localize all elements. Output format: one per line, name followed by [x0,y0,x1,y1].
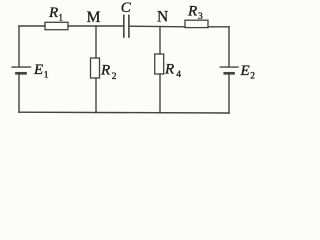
resistor R4 [155,54,164,74]
svg-text:4: 4 [176,70,181,80]
wire left side lower [18,73,20,112]
capacitor C left plate [123,15,125,37]
svg-text:C: C [121,0,132,16]
wire top-left segment [19,25,45,27]
resistor R3 [185,20,208,27]
resistor R1 [45,22,68,29]
svg-text:E: E [240,63,250,79]
wire bottom [19,111,229,114]
svg-text:M: M [87,9,101,26]
wire capacitor to R3 (through node N) [130,25,185,28]
battery E1 long plate [12,66,31,68]
svg-text:R: R [164,62,174,78]
wire right side upper [228,27,230,67]
svg-text:R: R [100,63,110,79]
svg-text:R: R [48,5,58,21]
wire R1 to capacitor (through node M) [68,25,123,27]
svg-text:1: 1 [44,70,49,80]
svg-text:3: 3 [198,12,203,22]
svg-text:2: 2 [112,72,117,82]
svg-text:N: N [157,8,168,25]
node N junction wire down to R4 [159,27,161,54]
svg-text:1: 1 [58,13,63,23]
wire N branch lower [159,74,161,113]
svg-text:R: R [187,4,197,20]
wire M branch lower [95,78,97,113]
battery E2 long plate [220,66,238,68]
wire left side upper [18,26,20,67]
svg-text:2: 2 [250,72,255,82]
wire R3 to top-right corner [208,26,229,28]
node M junction wire down to R2 [95,26,97,58]
wire right side lower [228,73,230,113]
svg-text:E: E [33,62,43,78]
battery E2 short plate [225,72,234,75]
capacitor C right plate [128,15,130,37]
battery E1 short plate [17,72,26,75]
resistor R2 [91,58,100,78]
